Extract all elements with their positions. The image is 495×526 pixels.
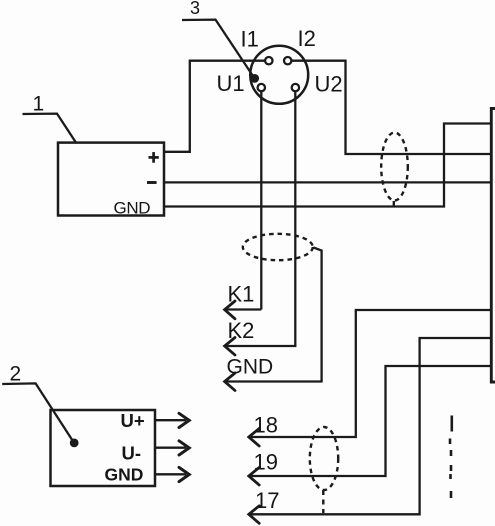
terminal + symbol (box 1) — [149, 152, 159, 163]
pin I1 — [265, 57, 272, 64]
pin label I1 — [241, 27, 259, 52]
arrowhead 18 — [249, 429, 259, 447]
wire: box1 + up to connector pin I1 — [164, 61, 266, 152]
wire K2 — [225, 345, 296, 347]
net label 17 — [255, 488, 279, 513]
arrowhead U+ — [179, 413, 189, 427]
net label GND — [227, 356, 274, 379]
wire: pin U2 down to K2 — [294, 91, 296, 346]
shield tail to GND wire (right cable) — [393, 201, 395, 207]
arrowhead K2 — [225, 338, 235, 356]
wire U+ output — [155, 419, 186, 421]
pin U1 — [258, 84, 265, 91]
arrowhead 17 — [249, 506, 259, 524]
svg-text:U-: U- — [122, 443, 142, 464]
svg-text:17: 17 — [255, 488, 279, 513]
svg-text:GND: GND — [227, 356, 274, 379]
connector 3 (circular connector body) — [250, 46, 308, 104]
wire: box1 GND right, up and into right box — [164, 124, 491, 207]
cable shield ellipse (right, around - and I2 wires) — [381, 133, 408, 201]
wire 18 (from right box down to arrow) — [249, 310, 491, 437]
right device box (edge of page) — [491, 109, 495, 383]
leader line for label 2 — [2, 383, 74, 442]
device box 2 (display/indicator) — [51, 410, 156, 486]
net label 19 — [254, 450, 278, 475]
leader dot inside box 2 — [70, 439, 79, 448]
svg-text:2: 2 — [10, 363, 22, 386]
svg-text:I1: I1 — [241, 27, 259, 52]
leader line for label 3 — [182, 20, 255, 79]
dashed screen marks near right box — [450, 416, 453, 432]
pin label U2 — [315, 71, 343, 96]
terminal U+ label (box 2) — [121, 410, 145, 431]
net label 18 — [254, 412, 278, 437]
wire: pin I2 right then down to y154 and into right box — [291, 61, 491, 154]
wire: pin U1 down to K1 — [260, 91, 262, 310]
device box 1 (power supply) — [58, 143, 164, 216]
shield drain wire down to GND arrow line — [314, 248, 322, 382]
label 1 — [33, 93, 45, 116]
leader line for label 1 — [23, 114, 77, 144]
arrowhead GND — [225, 373, 235, 391]
wire U- output — [155, 447, 186, 449]
label 3 — [190, 0, 200, 18]
net label K2 — [228, 318, 255, 343]
svg-text:U1: U1 — [217, 71, 245, 96]
arrowhead 19 — [249, 468, 259, 486]
wire GND output — [155, 473, 186, 475]
wire K1 — [225, 308, 261, 310]
wire GND (shield drain out) — [225, 380, 323, 382]
pin U2 — [292, 84, 299, 91]
shield drain (dashed) from lower shield to wire 17 — [322, 490, 324, 513]
pin label U1 — [217, 71, 245, 96]
terminal GND label (box 2) — [105, 465, 144, 485]
svg-text:U+: U+ — [121, 410, 145, 431]
leader dot on connector 3 — [250, 74, 259, 83]
svg-text:K2: K2 — [228, 318, 255, 343]
wire: box1 - to right box — [164, 181, 491, 183]
svg-text:I2: I2 — [298, 26, 316, 51]
terminal - symbol (box 1) — [147, 181, 157, 184]
svg-text:1: 1 — [33, 93, 45, 116]
cable shield ellipse (upper, around U1/U2 wires) — [243, 234, 313, 260]
terminal U- label (box 2) — [122, 443, 142, 464]
svg-text:19: 19 — [254, 450, 278, 475]
svg-text:K1: K1 — [228, 282, 255, 307]
pin I2 — [284, 57, 291, 64]
arrowhead GND out — [179, 467, 189, 481]
wire 17 (from right box down to arrow) — [249, 338, 491, 514]
svg-text:3: 3 — [190, 0, 200, 18]
svg-text:GND: GND — [114, 198, 151, 217]
wire 19 (from right box down to arrow) — [249, 366, 491, 476]
svg-text:U2: U2 — [315, 71, 343, 96]
net label K1 — [228, 282, 255, 307]
arrowhead U- — [179, 441, 189, 455]
pin label I2 — [298, 26, 316, 51]
svg-text:18: 18 — [254, 412, 278, 437]
svg-text:GND: GND — [105, 465, 144, 485]
terminal GND label (box 1) — [114, 198, 151, 217]
cable shield ellipse (lower, around wires 18/19) — [310, 427, 338, 490]
arrowhead K1 — [225, 301, 235, 319]
label 2 — [10, 363, 22, 386]
